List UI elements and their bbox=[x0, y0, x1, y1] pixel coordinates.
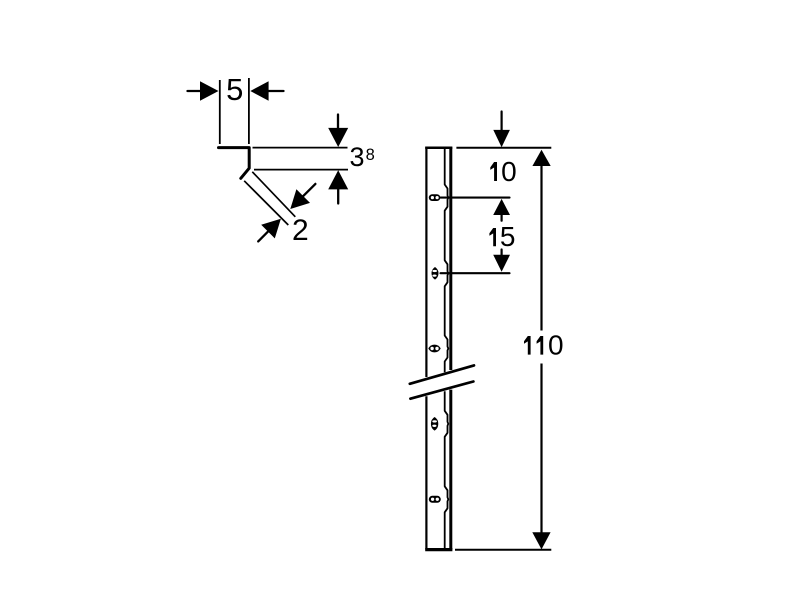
dim 10 label digit 1 bbox=[490, 162, 497, 181]
dim 15 label digit 1 bbox=[489, 228, 496, 246]
dim 5 left extension line bbox=[219, 80, 221, 144]
dim 2 lower-left tail line bbox=[258, 232, 268, 242]
svg-text:5: 5 bbox=[500, 221, 516, 252]
dim 2 upper-right tail line bbox=[303, 184, 315, 196]
dim 5 right arrowhead bbox=[250, 81, 268, 101]
top extension line bbox=[456, 147, 551, 149]
hole 1 center line bbox=[441, 197, 510, 199]
dim 2 upper-right arrowhead (points down-left at strip) bbox=[290, 189, 310, 209]
svg-text:3: 3 bbox=[349, 142, 364, 172]
rail left edge lower part bbox=[425, 396, 427, 549]
svg-text:5: 5 bbox=[226, 72, 243, 107]
dim 3/8 upper arrowhead bbox=[328, 128, 348, 147]
rail left edge upper part bbox=[425, 147, 427, 377]
bottom extension line bbox=[455, 549, 551, 551]
profile cut face (thick hook: top lip, vertical, small diagonal) bbox=[219, 148, 250, 179]
dim 15 upper arrowhead (up) bbox=[493, 199, 510, 215]
dim 110 line upper segment bbox=[540, 158, 542, 331]
svg-text:2: 2 bbox=[292, 214, 309, 247]
break line lower diagonal bbox=[410, 382, 473, 399]
profile bottom edge thin line bbox=[254, 169, 348, 171]
dim 5 left arrowhead bbox=[200, 81, 219, 101]
screw 4 (vertical slot) bbox=[431, 417, 438, 431]
rail top edge bbox=[425, 147, 452, 150]
break line upper diagonal bbox=[410, 365, 474, 383]
dim 15 lower arrowhead (down) bbox=[493, 255, 510, 272]
dim 10 arrow stem bbox=[501, 112, 503, 132]
svg-text:8: 8 bbox=[366, 146, 375, 164]
dim 5 left tail line bbox=[188, 90, 202, 92]
dim 110 label digit 1 (second) bbox=[537, 336, 544, 355]
dim 3/8 upper arrow stem bbox=[337, 115, 339, 131]
dim 10 arrowhead (down) bbox=[493, 130, 510, 147]
dim 5 right tail line bbox=[269, 90, 284, 92]
screw 5 (horizontal slot, two dots) bbox=[429, 496, 441, 503]
profile diagonal leg upper edge bbox=[252, 172, 295, 217]
dim 15 upper stem bbox=[501, 215, 503, 221]
dim 2 lower-left arrowhead (points up-right at strip) bbox=[261, 219, 281, 239]
screw 1 (horizontal slot, two dots) bbox=[429, 194, 441, 201]
rail inner bead line lower part (with bumps at screws) bbox=[445, 391, 449, 548]
dim 3/8 lower arrowhead bbox=[328, 170, 348, 189]
profile diagonal leg lower edge bbox=[244, 181, 288, 225]
rail right edge lower part bbox=[449, 390, 452, 550]
dim 110 label digit 1 (first) bbox=[524, 336, 531, 355]
dim 110 bottom arrowhead (down) bbox=[532, 532, 550, 549]
dim 3/8 lower arrow stem bbox=[337, 189, 339, 203]
screw 3 (horizontal slot, two dots) bbox=[428, 345, 440, 353]
rail bottom edge bbox=[425, 548, 452, 551]
hole 2 center line bbox=[441, 272, 510, 274]
svg-text:0: 0 bbox=[501, 156, 517, 187]
dim 5 right extension line bbox=[248, 78, 250, 144]
dim 110 top arrowhead (up) bbox=[532, 150, 550, 166]
profile top edge thin line bbox=[253, 147, 348, 149]
dim 15 lower stem bbox=[501, 250, 503, 256]
rail right edge upper part bbox=[449, 147, 452, 370]
svg-text:0: 0 bbox=[548, 330, 564, 361]
dim 110 line lower segment bbox=[540, 364, 542, 541]
rail inner bead line upper part (with bumps at screws) bbox=[445, 149, 449, 372]
screw 2 (vertical slot) bbox=[432, 267, 439, 280]
